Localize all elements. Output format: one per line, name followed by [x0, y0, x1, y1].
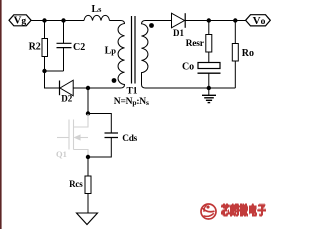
ground triangle [77, 213, 98, 225]
node dot Resr branch [207, 18, 211, 22]
node drain junction [86, 86, 90, 90]
resistor R2 [44, 21, 46, 39]
svg-text:Resr: Resr [186, 39, 205, 49]
node Cds top junction [86, 111, 90, 115]
svg-text:D1: D1 [173, 28, 184, 38]
svg-text:N=Np:Ns: N=Np:Ns [114, 97, 149, 107]
resistor Ro [234, 21, 236, 44]
transformer core [132, 16, 136, 84]
secondary polarity dot [149, 23, 154, 28]
svg-text:Lp: Lp [105, 46, 117, 57]
wire secondary top to D1 [146, 20, 172, 22]
logo emblem [201, 204, 216, 219]
svg-text:C2: C2 [73, 42, 85, 53]
svg-text:Q1: Q1 [56, 149, 67, 159]
capacitor Co [198, 63, 220, 69]
diode D2 [59, 81, 61, 96]
primary polarity dot [112, 78, 117, 83]
svg-text:Ls: Ls [92, 4, 103, 15]
transformer T1 primary Lp [88, 21, 125, 89]
wire source to Rcs [87, 157, 89, 176]
svg-text:R2: R2 [29, 42, 41, 53]
wire C2 bottom to junction [45, 70, 64, 72]
resistor Rcs [85, 176, 91, 194]
svg-text:Cds: Cds [122, 134, 137, 144]
node source junction [86, 155, 90, 159]
svg-text:Vg: Vg [13, 15, 26, 27]
source Vg [9, 15, 31, 26]
output Vo [246, 15, 271, 26]
svg-text:Vo: Vo [253, 15, 266, 27]
wire drain node down [87, 88, 89, 114]
node dot C2 branch [61, 18, 65, 22]
wire junction down to D2 [45, 71, 60, 88]
wire secondary bottom rail [146, 87, 236, 89]
wire top rail Vg to Ls [31, 20, 84, 22]
inductor Ls [84, 15, 110, 20]
wire Ls to transformer [110, 20, 121, 22]
svg-text:Co: Co [182, 62, 194, 73]
svg-text:T1: T1 [126, 86, 137, 96]
svg-text:Ro: Ro [242, 48, 254, 59]
diode D1 [172, 13, 185, 28]
capacitor Cds [88, 114, 111, 134]
node snubber junction [42, 69, 46, 73]
capacitor C2 [63, 21, 65, 44]
transistor Q1 (greyed) [57, 114, 88, 157]
node dot Ro branch [233, 18, 237, 22]
logo text 芯朗微电子 [221, 204, 266, 217]
ground earth symbol [208, 88, 210, 95]
wire D1 to Vo [185, 20, 245, 22]
node dot ground branch [207, 86, 211, 90]
svg-text:D2: D2 [61, 93, 72, 103]
node dot R2 branch [42, 18, 46, 22]
transformer T1 secondary Ns [142, 21, 148, 89]
svg-text:Rcs: Rcs [69, 179, 83, 189]
resistor Resr [208, 21, 210, 35]
